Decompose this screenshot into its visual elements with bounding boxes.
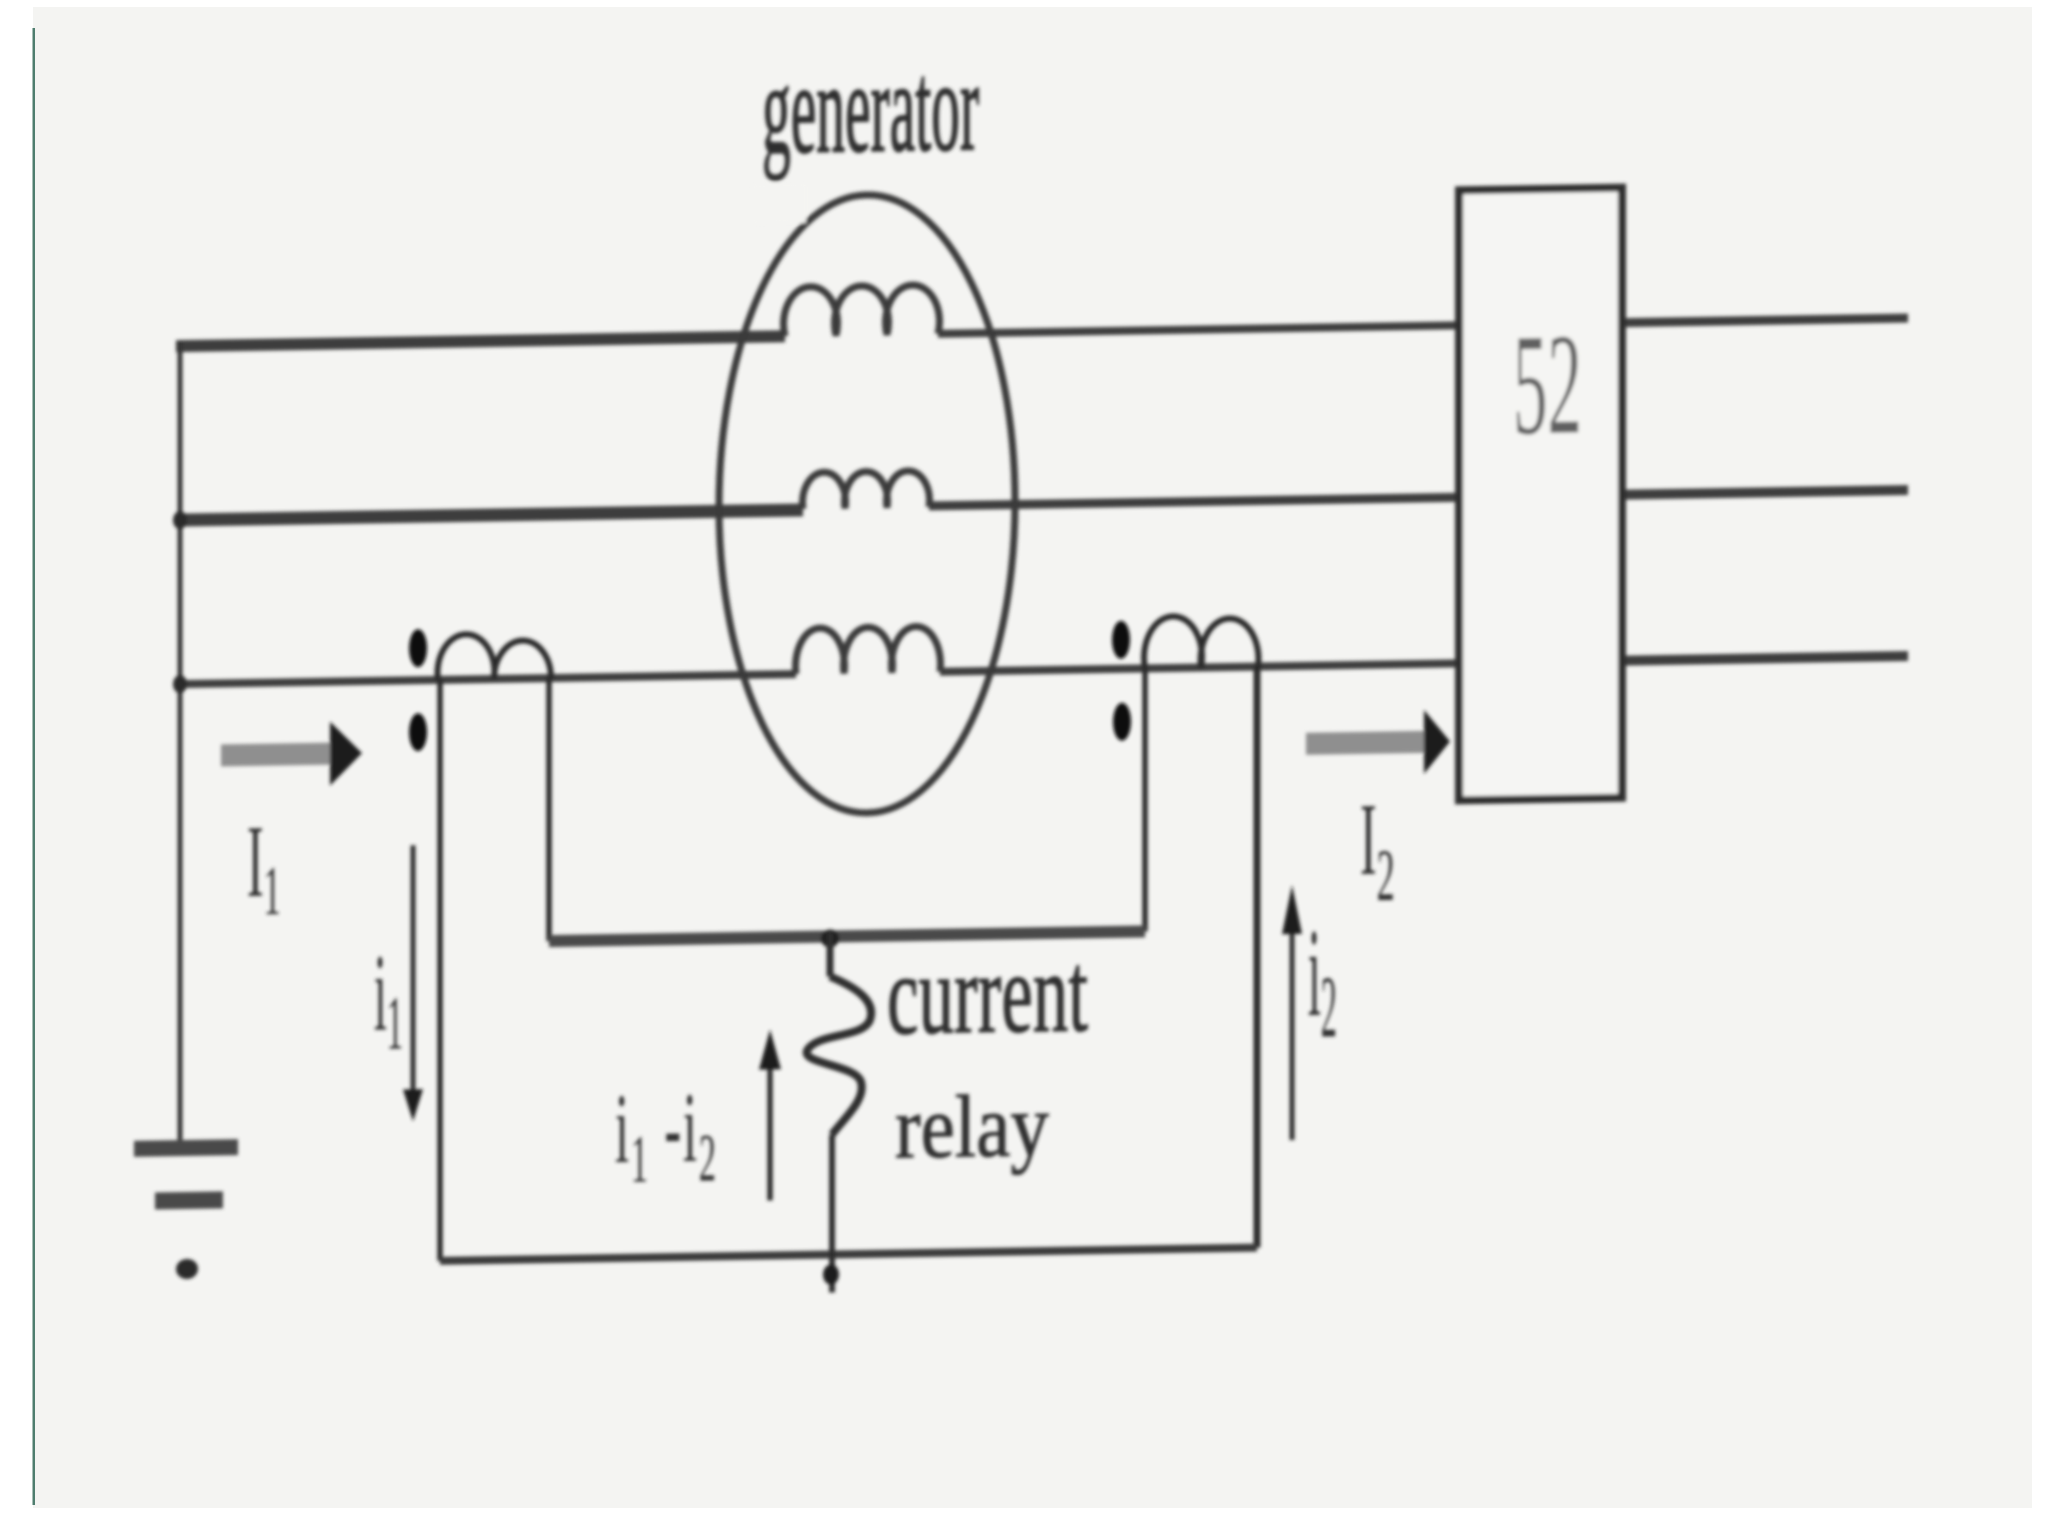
bus line B, middle segment bbox=[929, 497, 1459, 506]
CT2 secondary lead inner bbox=[1142, 668, 1148, 931]
bus line A (top phase), left segment bbox=[176, 336, 785, 346]
CT1 polarity dot lower bbox=[409, 713, 427, 751]
node at line B junction bbox=[173, 511, 187, 529]
arrow i1 (down) bbox=[403, 845, 423, 1121]
label relay bbox=[895, 1076, 1049, 1177]
svg-text:i1: i1 bbox=[374, 933, 403, 1066]
label i1 bbox=[374, 933, 403, 1066]
generator winding, phase A bbox=[784, 285, 940, 337]
bus line C (bottom phase), left segment bbox=[176, 674, 796, 684]
generator winding, phase C bbox=[796, 626, 941, 674]
label i2 bbox=[1308, 901, 1337, 1056]
secondary bottom wire bbox=[440, 1248, 1257, 1261]
arrow i1-i2 (up, into relay) bbox=[759, 1029, 781, 1200]
CT2 primary arcs (right current transformer) bbox=[1144, 615, 1259, 669]
CT2 polarity dot lower bbox=[1113, 703, 1131, 741]
svg-text:i1 -i2: i1 -i2 bbox=[615, 1073, 718, 1197]
CT1 primary arcs (left current transformer) bbox=[438, 633, 551, 680]
svg-text:52: 52 bbox=[1513, 303, 1582, 465]
CT1 secondary lead outer bbox=[437, 680, 443, 1261]
bus line A, middle segment bbox=[938, 325, 1459, 333]
svg-text:i2: i2 bbox=[1308, 901, 1337, 1056]
ground bbox=[134, 1139, 238, 1280]
arrow i2 (up) bbox=[1282, 885, 1302, 1140]
arrow I2 bbox=[1306, 709, 1450, 775]
svg-text:I2: I2 bbox=[1360, 783, 1395, 917]
relay lower wire bbox=[829, 1134, 835, 1292]
CT2 polarity dot upper bbox=[1112, 621, 1130, 659]
relay tap junction bbox=[821, 929, 839, 947]
bus line C, right segment bbox=[1622, 656, 1908, 661]
label I2 bbox=[1360, 783, 1395, 917]
svg-text:current: current bbox=[887, 928, 1088, 1059]
label generator bbox=[752, 34, 979, 224]
label 52 bbox=[1513, 303, 1582, 465]
svg-text:I1: I1 bbox=[247, 805, 281, 929]
label I1 bbox=[247, 805, 281, 929]
current relay coil (squiggle) bbox=[807, 976, 872, 1135]
teal slide edge line bbox=[33, 28, 36, 1505]
CT2 secondary lead outer bbox=[1254, 667, 1261, 1248]
node at line C junction bbox=[173, 675, 187, 693]
relay tap wire bbox=[827, 933, 834, 977]
svg-text:relay: relay bbox=[895, 1076, 1049, 1177]
circuit breaker 52 box bbox=[1459, 188, 1622, 801]
secondary link wire (pilot wire top) bbox=[549, 931, 1145, 941]
neutral wire (left vertical) bbox=[178, 342, 183, 1145]
bus line C, middle segment bbox=[940, 663, 1459, 671]
generator winding, phase B bbox=[803, 470, 930, 508]
CT1 polarity dot upper bbox=[409, 629, 427, 667]
generator G1 circle bbox=[719, 193, 1015, 816]
arrow I1 bbox=[221, 721, 362, 787]
bus line B (middle phase), left segment bbox=[176, 510, 803, 520]
svg-text:generator: generator bbox=[762, 34, 979, 181]
label current (relay) bbox=[887, 928, 1088, 1059]
bus line A, right segment bbox=[1622, 318, 1908, 323]
label i1 - i2 bbox=[615, 1073, 718, 1197]
CT1 secondary lead inner bbox=[546, 678, 552, 941]
junction on bottom wire bbox=[823, 1264, 839, 1284]
bus line B, right segment bbox=[1622, 490, 1908, 495]
